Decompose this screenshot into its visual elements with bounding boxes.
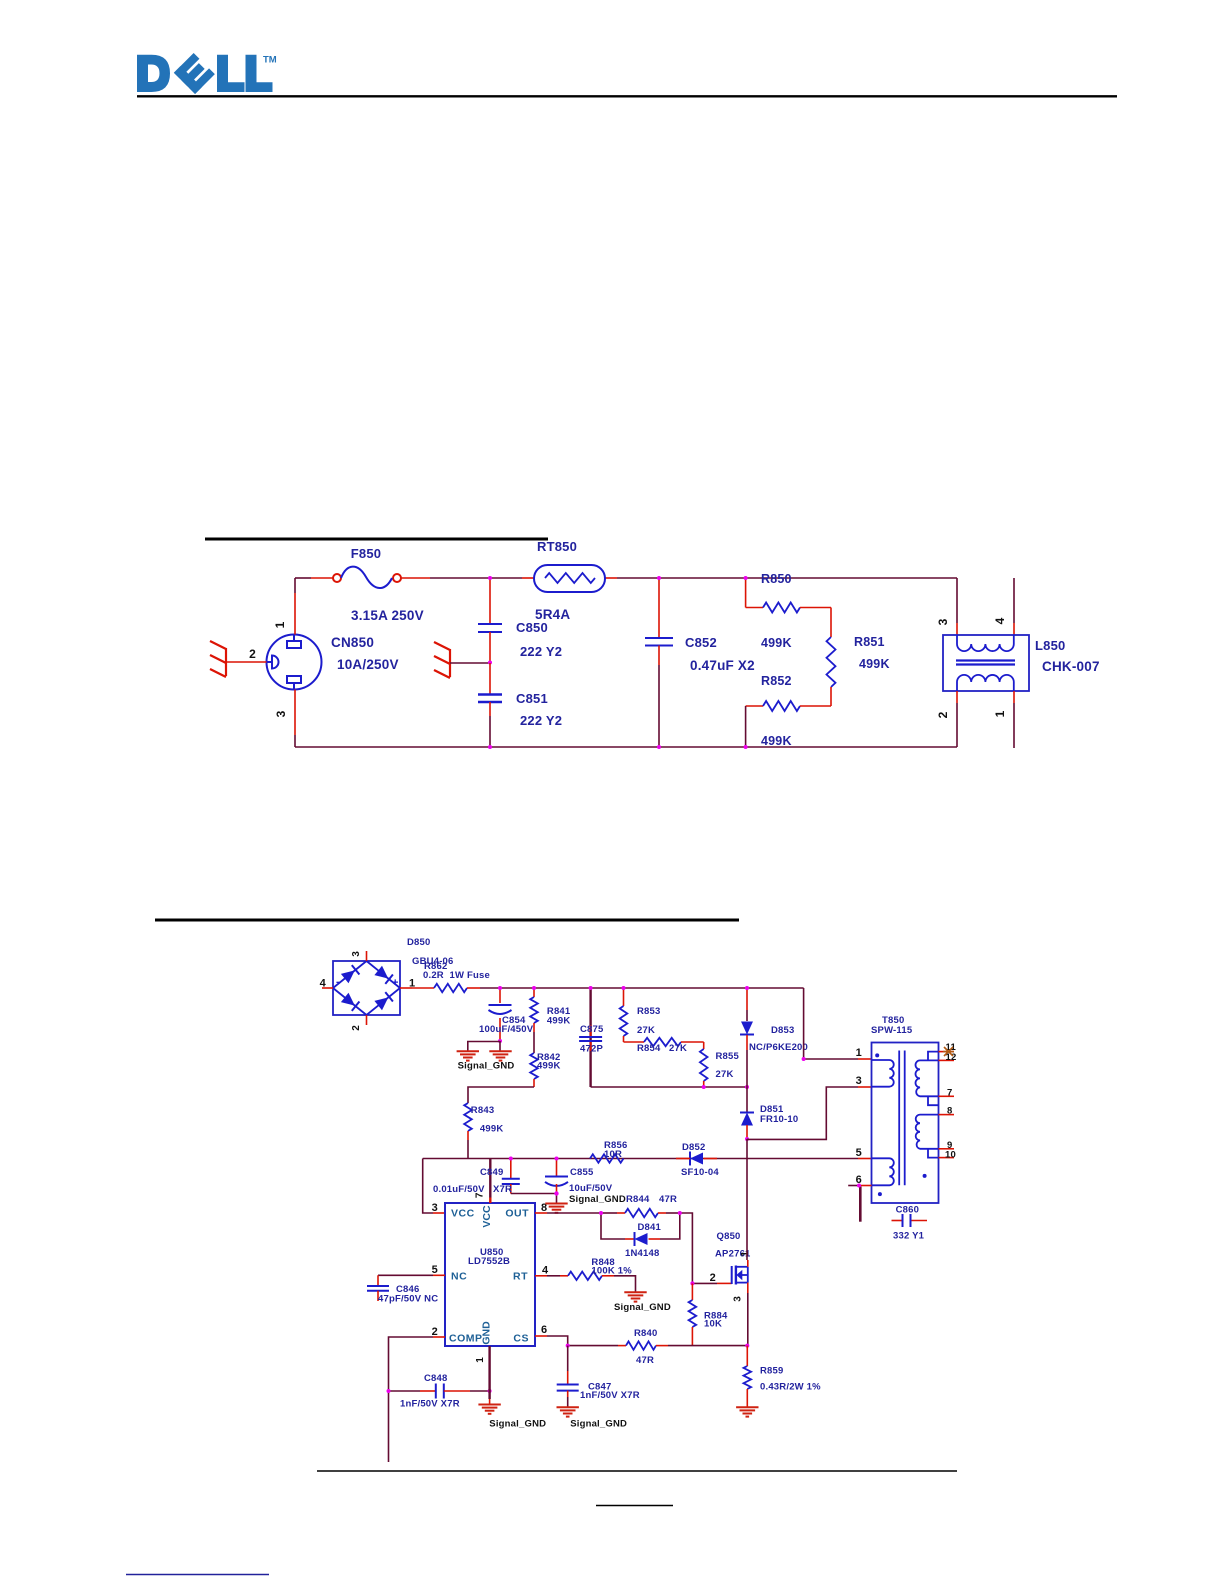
svg-text:R853: R853 (637, 1006, 661, 1017)
svg-text:499K: 499K (761, 734, 792, 748)
svg-text:0.01uF/50V: 0.01uF/50V (433, 1184, 485, 1195)
node junction D853 rail (745, 986, 749, 990)
wire CS net (535, 1336, 568, 1346)
svg-text:VCC: VCC (481, 1205, 493, 1228)
svg-text:1nF/50V X7R: 1nF/50V X7R (400, 1399, 460, 1410)
wire gate (692, 1272, 731, 1284)
svg-text:X7R: X7R (493, 1184, 512, 1195)
svg-text:CN850: CN850 (331, 635, 374, 650)
svg-text:332 Y1: 332 Y1 (893, 1231, 925, 1242)
svg-text:RT850: RT850 (537, 539, 577, 554)
resistor R844 (617, 1194, 680, 1217)
node junction source (745, 1344, 749, 1348)
fuse F850 (333, 546, 424, 623)
svg-text:Signal_GND: Signal_GND (458, 1061, 515, 1072)
footer link rule (126, 1574, 269, 1576)
svg-text:0.43R/2W 1%: 0.43R/2W 1% (760, 1382, 821, 1393)
footer small rule (596, 1505, 673, 1507)
svg-text:47R: 47R (659, 1194, 677, 1205)
pin 4 D850 (320, 978, 333, 990)
svg-text:OUT: OUT (505, 1208, 529, 1220)
node junction C854 rail (498, 986, 502, 990)
svg-text:6: 6 (541, 1324, 547, 1336)
chassis ground at CN850 pin 2 (210, 641, 267, 677)
wire OUT corner to gate (680, 1213, 693, 1283)
node junction gate (690, 1281, 694, 1285)
svg-text:3: 3 (432, 1202, 438, 1214)
node junction R844 right (678, 1211, 682, 1215)
svg-text:27K: 27K (637, 1025, 655, 1036)
node junction OUT (599, 1211, 603, 1215)
svg-text:7: 7 (947, 1087, 952, 1098)
section 1 title underline (205, 538, 548, 541)
svg-text:VCC: VCC (451, 1208, 475, 1220)
resistor R884 (689, 1283, 728, 1345)
node junction pin 6 (857, 1184, 861, 1188)
svg-text:47R: 47R (636, 1355, 654, 1366)
signal ground at R848 (614, 1292, 671, 1313)
node junction C848 right (488, 1389, 492, 1393)
svg-text:R854: R854 (637, 1043, 661, 1054)
main rail wire (500, 987, 804, 989)
svg-text:1: 1 (993, 710, 1007, 717)
bridge rectifier D850 (333, 961, 400, 1015)
pin 1 CN850 (273, 578, 295, 635)
svg-text:R843: R843 (471, 1105, 495, 1116)
svg-text:4: 4 (542, 1265, 549, 1277)
svg-text:47pF/50V NC: 47pF/50V NC (378, 1294, 438, 1305)
thermistor RT850 (534, 539, 605, 622)
capacitor C855 (545, 1159, 613, 1195)
snubber node wire (591, 1086, 747, 1088)
node junction R841 rail (532, 986, 536, 990)
chassis ground mid (434, 642, 490, 678)
resistor R852 (746, 674, 831, 748)
node junction gnd stem (554, 1191, 558, 1195)
svg-text:RT: RT (513, 1271, 528, 1283)
svg-text:C850: C850 (516, 620, 548, 635)
ground at R859 (736, 1406, 758, 1408)
pin 8 T850 (939, 1106, 955, 1117)
bottom rail wire (295, 746, 957, 748)
svg-text:C852: C852 (685, 635, 717, 650)
footer rule (317, 1470, 957, 1472)
svg-text:+: + (392, 977, 399, 989)
wire L850 pin 4 (993, 578, 1014, 635)
capacitor C852 (645, 578, 755, 747)
svg-text:5: 5 (432, 1264, 438, 1276)
svg-text:Signal_GND: Signal_GND (569, 1194, 626, 1205)
svg-text:2: 2 (351, 1025, 362, 1031)
wire L850 pin 1 (993, 691, 1014, 748)
svg-text:10uF/50V: 10uF/50V (569, 1183, 613, 1194)
pin 3 D850 (351, 951, 367, 961)
svg-text:Q850: Q850 (717, 1231, 741, 1242)
node junction C854 gnd (498, 1039, 502, 1043)
node junction bottom C851 (488, 745, 492, 749)
svg-text:100uF/450V: 100uF/450V (479, 1024, 534, 1035)
connector CN850 (267, 635, 399, 690)
capacitor C875 (579, 988, 604, 1087)
svg-text:499K: 499K (547, 1016, 571, 1027)
svg-text:499K: 499K (480, 1124, 504, 1135)
svg-text:NC/P6KE200: NC/P6KE200 (749, 1042, 808, 1053)
svg-text:1N4148: 1N4148 (625, 1248, 659, 1259)
svg-text:499K: 499K (761, 636, 792, 650)
svg-text:1: 1 (273, 621, 287, 628)
svg-text:1nF/50V X7R: 1nF/50V X7R (580, 1390, 640, 1401)
svg-text:4: 4 (320, 978, 327, 990)
svg-text:C849: C849 (480, 1167, 504, 1178)
node junction R850 top (744, 576, 748, 580)
capacitor C860 (892, 1205, 928, 1242)
pin 10 T850 (939, 1149, 956, 1160)
diode D841 (601, 1213, 680, 1259)
svg-text:CHK-007: CHK-007 (1042, 659, 1100, 674)
svg-text:R844: R844 (626, 1194, 650, 1205)
node junction C875 rail (589, 986, 593, 990)
svg-text:0.47uF X2: 0.47uF X2 (690, 658, 755, 673)
transformer T850 (871, 1015, 939, 1203)
svg-text:R850: R850 (761, 572, 792, 586)
svg-text:8: 8 (947, 1106, 952, 1117)
resistor R854 (624, 1038, 704, 1054)
wire OUT net (535, 1212, 617, 1214)
svg-text:3: 3 (733, 1296, 744, 1302)
svg-text:5: 5 (856, 1147, 862, 1159)
node junction C850/C851 (488, 661, 492, 665)
svg-text:10A/250V: 10A/250V (337, 657, 399, 672)
node junction bottom C852 (657, 745, 661, 749)
svg-text:R852: R852 (761, 674, 792, 688)
no-connect X pin 11 (943, 1047, 954, 1056)
Dell logo (137, 53, 277, 94)
wire T850 pin 3 (747, 1087, 872, 1139)
svg-text:CS: CS (513, 1333, 529, 1345)
svg-text:3: 3 (936, 618, 950, 625)
svg-text:10R: 10R (604, 1149, 622, 1160)
svg-text:COMP: COMP (449, 1333, 483, 1345)
svg-text:R840: R840 (634, 1328, 658, 1339)
svg-text:SPW-115: SPW-115 (871, 1025, 913, 1036)
svg-text:2: 2 (936, 711, 950, 718)
capacitor C854 (479, 988, 534, 1041)
signal ground at C855 (511, 1194, 626, 1213)
svg-text:2: 2 (710, 1272, 716, 1284)
resistor R850 (746, 572, 831, 650)
node junction C855 (555, 1157, 559, 1161)
wire aux to T850 pin 5 (423, 1158, 872, 1160)
pin 3 CN850 (274, 690, 295, 748)
resistor R851 (827, 608, 890, 707)
node junction top C852 (657, 576, 661, 580)
resistor R855 (700, 1042, 740, 1087)
svg-text:R851: R851 (854, 635, 885, 649)
pin 9 T850 (939, 1140, 955, 1151)
svg-text:27K: 27K (669, 1043, 687, 1054)
svg-text:D853: D853 (771, 1025, 795, 1036)
resistor R853 (620, 988, 661, 1042)
svg-text:Signal_GND: Signal_GND (570, 1419, 627, 1430)
node junction C849 (509, 1157, 513, 1161)
diode D851 (740, 1087, 798, 1139)
resistor R840 (568, 1328, 748, 1366)
wire source (747, 1293, 749, 1346)
capacitor C848 (389, 1373, 490, 1410)
capacitor C847 (557, 1346, 640, 1407)
svg-text:222 Y2: 222 Y2 (520, 713, 562, 728)
svg-text:27K: 27K (716, 1069, 734, 1080)
svg-text:C860: C860 (896, 1205, 920, 1216)
pin 1 U850 GND (475, 1346, 490, 1405)
svg-text:D850: D850 (407, 937, 431, 948)
svg-text:SF10-04: SF10-04 (681, 1167, 719, 1178)
node junction R855 (702, 1085, 706, 1089)
svg-text:10: 10 (945, 1149, 956, 1160)
resistor R842 (468, 1052, 561, 1103)
svg-text:TM: TM (263, 55, 277, 66)
svg-text:10K: 10K (704, 1319, 722, 1330)
svg-text:R855: R855 (716, 1051, 740, 1062)
svg-text:C851: C851 (516, 691, 548, 706)
capacitor C849 (433, 1159, 520, 1196)
header rule (137, 95, 1117, 97)
svg-text:C848: C848 (424, 1373, 448, 1384)
choke L850 (943, 635, 1100, 691)
IC U850 (445, 1203, 535, 1346)
svg-text:GND: GND (481, 1321, 493, 1345)
wire drain (746, 1139, 748, 1260)
node junction pin1 corner (802, 1057, 806, 1061)
labels D850 (407, 937, 454, 967)
svg-text:FR10-10: FR10-10 (760, 1114, 798, 1125)
resistor R848 (535, 1257, 636, 1293)
wire COMP net (389, 1337, 446, 1462)
signal ground pair at C854 (457, 1041, 515, 1072)
resistor R856 (590, 1140, 628, 1163)
pin 1 D850 (400, 978, 415, 990)
svg-text:Signal_GND: Signal_GND (489, 1419, 546, 1430)
resistor R843 (464, 1103, 503, 1159)
pin 7 U850 (475, 1159, 491, 1204)
resistor R841 (530, 988, 571, 1053)
fusible resistor R862 (412, 961, 500, 992)
signal ground at C847 (557, 1407, 628, 1429)
node junction drain (745, 1137, 749, 1141)
svg-text:C855: C855 (570, 1167, 594, 1178)
MOSFET Q850 (715, 1231, 751, 1302)
wire to L850 pin 3 (936, 578, 957, 635)
svg-text:-: - (336, 976, 340, 988)
svg-text:1: 1 (475, 1357, 486, 1363)
svg-text:1: 1 (740, 1251, 751, 1257)
svg-text:NC: NC (451, 1271, 467, 1283)
svg-text:LD7552B: LD7552B (468, 1256, 510, 1267)
svg-text:Signal_GND: Signal_GND (614, 1302, 671, 1313)
diode D852 (676, 1142, 719, 1178)
svg-text:3: 3 (274, 710, 288, 717)
signal ground at U850 GND (478, 1405, 546, 1430)
svg-text:L850: L850 (1035, 638, 1065, 653)
wire rail corner to T850 pin 1 (804, 988, 872, 1059)
svg-text:D852: D852 (682, 1142, 706, 1153)
node junction R853 rail (622, 986, 626, 990)
wire (295, 577, 957, 579)
svg-text:100K 1%: 100K 1% (591, 1265, 632, 1276)
svg-text:0.2R 1W Fuse: 0.2R 1W Fuse (423, 970, 490, 981)
node junction snubber (745, 1085, 749, 1089)
svg-text:R859: R859 (760, 1366, 784, 1377)
node junction CS (566, 1344, 570, 1348)
svg-text:1: 1 (856, 1047, 862, 1059)
capacitor C851 (478, 663, 562, 747)
svg-text:F850: F850 (351, 546, 381, 561)
capacitor C846 (367, 1275, 445, 1304)
node junction top C850 (488, 576, 492, 580)
svg-text:4: 4 (993, 617, 1007, 624)
capacitor C850 (478, 578, 562, 662)
diode D853 (740, 988, 808, 1087)
svg-text:472P: 472P (580, 1044, 603, 1055)
wire L850 pin 2 (936, 691, 957, 747)
pin 6 T850 (848, 1174, 871, 1222)
pins 11 12 T850 (939, 1042, 957, 1063)
svg-text:3: 3 (856, 1075, 862, 1087)
svg-text:222 Y2: 222 Y2 (520, 644, 562, 659)
svg-text:3: 3 (351, 951, 362, 957)
svg-text:499K: 499K (859, 657, 890, 671)
svg-text:D841: D841 (638, 1222, 662, 1233)
pin 7 T850 (939, 1087, 955, 1098)
svg-text:C875: C875 (580, 1024, 604, 1035)
node junction C848 left (387, 1389, 391, 1393)
node junction R852 bottom (744, 745, 748, 749)
svg-text:499K: 499K (537, 1061, 561, 1072)
svg-text:2: 2 (249, 647, 256, 661)
svg-text:3.15A 250V: 3.15A 250V (351, 608, 424, 623)
wire VCC branch (423, 1159, 445, 1214)
resistor R859 (744, 1346, 822, 1407)
section 2 title underline (155, 919, 739, 922)
pin 2 D850 (351, 1015, 367, 1031)
